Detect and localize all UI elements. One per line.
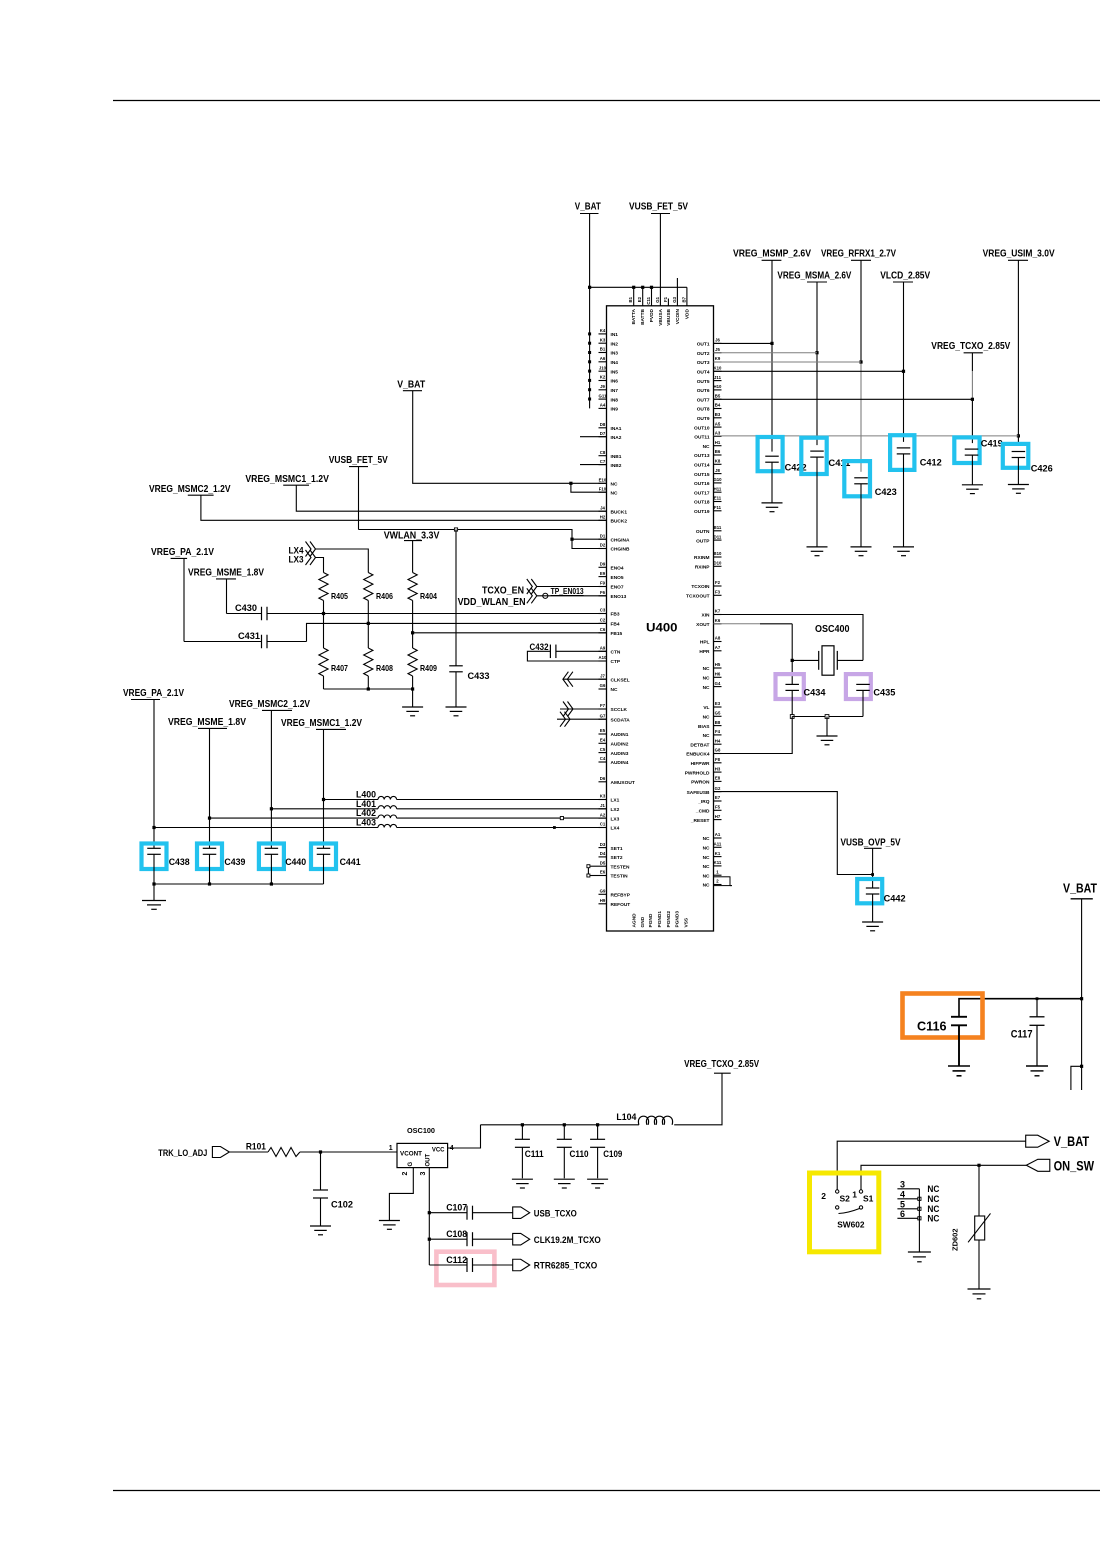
svg-text:NC: NC bbox=[703, 846, 710, 852]
capacitor C111 bbox=[515, 1125, 544, 1179]
top pin numbers bbox=[628, 296, 686, 304]
svg-text:A2: A2 bbox=[600, 812, 606, 817]
svg-text:VREG_TCXO_2.85V: VREG_TCXO_2.85V bbox=[931, 340, 1010, 352]
svg-text:E2: E2 bbox=[637, 296, 642, 302]
svg-text:CLKSEL: CLKSEL bbox=[611, 677, 630, 683]
svg-text:C438: C438 bbox=[169, 857, 190, 868]
svg-text:ENBUCK4: ENBUCK4 bbox=[686, 752, 710, 758]
capacitor C432 bbox=[530, 642, 556, 658]
power flag VREG_MSMC1_1.2V (lower) bbox=[281, 718, 362, 729]
wire CLKSEL bbox=[563, 678, 607, 680]
bottom pin names inside U400 bbox=[632, 911, 690, 928]
svg-text:OUT15: OUT15 bbox=[694, 472, 710, 478]
svg-text:VREG_MSMA_2.6V: VREG_MSMA_2.6V bbox=[777, 269, 851, 281]
resistor R408 bbox=[364, 648, 394, 676]
svg-text:CLK19.2M_TCXO: CLK19.2M_TCXO bbox=[534, 1235, 601, 1246]
svg-text:OUT9: OUT9 bbox=[697, 416, 710, 422]
svg-text:H10: H10 bbox=[714, 384, 722, 389]
svg-text:SET2: SET2 bbox=[611, 855, 623, 861]
wire VREG_MSMC1 vertical to C441 bbox=[322, 729, 325, 848]
svg-text:F3: F3 bbox=[715, 590, 721, 595]
capacitor C438 bbox=[142, 844, 190, 885]
svg-text:6: 6 bbox=[900, 1209, 905, 1219]
wire OSC100 VCC to node bbox=[448, 1125, 481, 1148]
svg-text:VSS: VSS bbox=[684, 917, 690, 927]
svg-text:AGND: AGND bbox=[632, 913, 638, 928]
wire LX2 row via L401 bbox=[271, 808, 606, 810]
resistor R405 bbox=[319, 573, 348, 602]
svg-text:D10: D10 bbox=[714, 561, 722, 566]
svg-text:BUCK2: BUCK2 bbox=[611, 519, 628, 525]
svg-text:A9: A9 bbox=[600, 646, 606, 651]
ground below OSC100 G bbox=[379, 1221, 400, 1230]
power flag VREG_RFRX1_2.7V bbox=[821, 248, 896, 261]
svg-text:D3: D3 bbox=[600, 842, 606, 847]
svg-text:4: 4 bbox=[900, 1189, 905, 1199]
svg-text:NC: NC bbox=[703, 873, 710, 879]
svg-text:K11: K11 bbox=[714, 860, 722, 865]
svg-text:C434: C434 bbox=[804, 688, 827, 699]
svg-text:C3: C3 bbox=[600, 608, 606, 613]
svg-text:_RESET: _RESET bbox=[690, 818, 710, 824]
svg-text:C108: C108 bbox=[446, 1229, 467, 1240]
svg-text:IN1: IN1 bbox=[611, 332, 619, 338]
svg-text:AUDIN1: AUDIN1 bbox=[611, 732, 629, 738]
svg-text:G3: G3 bbox=[672, 296, 677, 302]
power flag VREG_MSMC1_1.2V (upper) bbox=[245, 474, 329, 485]
wire OUT11 to VREG_USIM bbox=[714, 435, 1019, 437]
wire crystal ground rail bbox=[792, 715, 863, 719]
svg-text:SCDATA: SCDATA bbox=[611, 717, 631, 723]
svg-text:IN8: IN8 bbox=[611, 397, 619, 403]
svg-text:VCONT: VCONT bbox=[400, 1152, 422, 1158]
svg-text:PGND1: PGND1 bbox=[657, 911, 663, 928]
wire R405 bottom to FB3 node bbox=[322, 601, 325, 649]
svg-text:E9: E9 bbox=[600, 571, 606, 576]
svg-text:H11: H11 bbox=[714, 486, 722, 491]
svg-text:D7: D7 bbox=[600, 431, 606, 436]
svg-text:CHGINB: CHGINB bbox=[611, 547, 630, 553]
svg-text:2: 2 bbox=[821, 1191, 826, 1201]
svg-text:C426: C426 bbox=[1031, 464, 1053, 475]
svg-text:V_BAT: V_BAT bbox=[1054, 1133, 1090, 1149]
svg-text:K3: K3 bbox=[600, 337, 606, 342]
capacitor C440 bbox=[259, 844, 306, 885]
ground below NC pins bbox=[908, 1252, 931, 1262]
capacitor C419 bbox=[954, 437, 1003, 484]
wire VREG_MSMP rail bbox=[770, 260, 773, 451]
wire VWLAN row bbox=[359, 528, 607, 549]
wire INA2 stub bbox=[580, 436, 607, 438]
wire VREG_RFRX1 rail bbox=[859, 260, 862, 472]
wire top supply bus bbox=[588, 286, 687, 289]
connector ON_SW (bottom right) bbox=[1026, 1157, 1094, 1173]
capacitor C431 bbox=[238, 631, 267, 648]
inductor L104 bbox=[616, 1112, 672, 1125]
svg-text:1: 1 bbox=[852, 1190, 857, 1200]
wire VUSB_FET drop to VWLAN row bbox=[358, 467, 360, 530]
wire LX3 row via L402 bbox=[210, 817, 607, 820]
net label VWLAN_3.3V bbox=[384, 530, 440, 541]
svg-text:HPR: HPR bbox=[699, 649, 710, 655]
svg-text:C439: C439 bbox=[224, 857, 245, 868]
svg-text:K6: K6 bbox=[715, 618, 721, 623]
svg-text:B1: B1 bbox=[600, 347, 606, 352]
svg-text:H5: H5 bbox=[715, 662, 721, 667]
capacitor C109 bbox=[590, 1125, 622, 1179]
top pin names inside U400 bbox=[631, 308, 690, 325]
svg-text:VL: VL bbox=[703, 705, 709, 711]
svg-text:OUT19: OUT19 bbox=[694, 509, 710, 515]
svg-text:AMUXOUT: AMUXOUT bbox=[611, 780, 635, 786]
inductor L402 bbox=[356, 808, 397, 818]
svg-text:SW602: SW602 bbox=[837, 1220, 865, 1230]
svg-text:OUT7: OUT7 bbox=[697, 397, 710, 403]
svg-text:G1: G1 bbox=[655, 296, 660, 302]
power flag VUSB_FET_5V (top) bbox=[629, 201, 688, 214]
wire VWLAN label drop to R404 bbox=[412, 541, 414, 573]
svg-text:B7: B7 bbox=[681, 296, 686, 302]
svg-text:ENO5: ENO5 bbox=[611, 575, 624, 581]
svg-text:VUSB_OVP_5V: VUSB_OVP_5V bbox=[841, 837, 901, 848]
svg-text:OUT11: OUT11 bbox=[694, 435, 710, 441]
svg-text:VDD: VDD bbox=[684, 308, 690, 319]
svg-text:2: 2 bbox=[402, 1172, 409, 1176]
wire C108 to CLK19.2M_TCXO connector bbox=[473, 1238, 513, 1240]
svg-text:PGND3: PGND3 bbox=[675, 911, 681, 928]
wire VREG_MSME to C430 bbox=[226, 579, 228, 614]
svg-text:H9: H9 bbox=[600, 898, 606, 903]
wire TRK_LO_ADJ to R101 bbox=[230, 1151, 269, 1153]
svg-text:C423: C423 bbox=[875, 487, 897, 498]
svg-text:OUT16: OUT16 bbox=[694, 481, 710, 487]
svg-text:5: 5 bbox=[900, 1199, 905, 1209]
wire C434 bottom to ground rail bbox=[790, 690, 794, 718]
wire VUSB_OVP drop bbox=[871, 848, 874, 888]
svg-text:C111: C111 bbox=[525, 1149, 545, 1160]
svg-text:SET1: SET1 bbox=[611, 846, 623, 852]
wire OUT4 to VLCD bbox=[714, 370, 904, 372]
svg-text:VCOIN: VCOIN bbox=[675, 308, 681, 324]
wire CTP row U-loop bbox=[527, 651, 606, 661]
wire C433 drop from VWLAN row bbox=[455, 530, 457, 666]
capacitor C422 bbox=[758, 437, 807, 503]
capacitor C411 bbox=[801, 438, 851, 547]
svg-text:B8: B8 bbox=[715, 720, 721, 725]
wire resistor bottom rail bbox=[324, 676, 415, 691]
svg-text:C430: C430 bbox=[235, 603, 257, 614]
svg-text:J10: J10 bbox=[599, 365, 607, 370]
svg-text:F1: F1 bbox=[663, 296, 668, 302]
svg-text:IN7: IN7 bbox=[611, 388, 619, 394]
svg-text:G7: G7 bbox=[600, 713, 606, 718]
power flag V_BAT (top) bbox=[575, 201, 601, 214]
svg-text:IN9: IN9 bbox=[611, 407, 619, 413]
svg-text:D1: D1 bbox=[600, 533, 606, 538]
svg-text:K10: K10 bbox=[714, 366, 722, 371]
power flag VREG_MSMA_2.6V bbox=[777, 269, 851, 282]
resistor R404 bbox=[408, 573, 437, 602]
svg-text:GND: GND bbox=[640, 916, 646, 927]
svg-text:NC: NC bbox=[703, 836, 710, 842]
ground below C111 bbox=[512, 1179, 533, 1188]
wire VREG_MSMC1 to BUCK1 bbox=[296, 485, 606, 511]
svg-text:NC: NC bbox=[703, 444, 710, 450]
power flag VUSB_OVP_5V bbox=[841, 837, 901, 848]
svg-text:E8: E8 bbox=[715, 776, 721, 781]
svg-text:OUT: OUT bbox=[426, 1154, 432, 1167]
svg-text:OUT6: OUT6 bbox=[697, 388, 710, 394]
svg-text:F2: F2 bbox=[715, 580, 721, 585]
capacitor C116 bbox=[903, 994, 983, 1066]
ground below C426 bbox=[1008, 485, 1029, 494]
wire LX3 to R405 bbox=[316, 558, 324, 573]
wire VREG_TCXO to L104 bbox=[674, 1073, 722, 1125]
connector RTR6285_TCXO bbox=[513, 1259, 598, 1271]
svg-text:OSC100: OSC100 bbox=[407, 1128, 435, 1135]
svg-text:OUT1: OUT1 bbox=[697, 342, 710, 348]
svg-text:TP_EN013: TP_EN013 bbox=[551, 586, 584, 596]
svg-text:SAFEUSB: SAFEUSB bbox=[687, 790, 710, 796]
svg-text:E7: E7 bbox=[715, 795, 721, 800]
stub connector at V_BAT rail bottom bbox=[1071, 1065, 1083, 1090]
svg-text:A4: A4 bbox=[600, 403, 606, 408]
capacitor C435 bbox=[846, 674, 896, 699]
svg-text:SCCLK: SCCLK bbox=[611, 707, 628, 713]
wire VREG_TCXO rail bbox=[971, 353, 974, 443]
wire C435 bottom to ground rail bbox=[862, 690, 864, 716]
svg-text:OUT17: OUT17 bbox=[694, 490, 710, 496]
box around pin 2 stub bbox=[714, 877, 733, 886]
ground below C419 bbox=[962, 485, 983, 494]
svg-text:E6: E6 bbox=[600, 870, 606, 875]
svg-text:R405: R405 bbox=[331, 591, 348, 601]
svg-text:CHGINA: CHGINA bbox=[611, 537, 630, 543]
svg-text:RTR6285_TCXO: RTR6285_TCXO bbox=[534, 1261, 597, 1272]
wire LX4 to R406 bbox=[316, 549, 369, 573]
power flag VREG_USIM_3.0V bbox=[983, 248, 1055, 261]
svg-text:VREG_RFRX1_2.7V: VREG_RFRX1_2.7V bbox=[821, 248, 896, 260]
svg-text:F4: F4 bbox=[715, 729, 721, 734]
svg-text:F6: F6 bbox=[600, 590, 606, 595]
svg-text:A8: A8 bbox=[715, 636, 721, 641]
svg-text:FB15: FB15 bbox=[611, 631, 623, 637]
wire INB2 stub bbox=[580, 464, 607, 466]
svg-text:C102: C102 bbox=[331, 1200, 353, 1211]
svg-text:R101: R101 bbox=[246, 1142, 267, 1153]
svg-text:LX3: LX3 bbox=[289, 555, 304, 566]
wire C431 and FB4 row bbox=[184, 623, 607, 641]
svg-text:K3: K3 bbox=[600, 794, 606, 799]
wire LX4 row via L403 bbox=[154, 826, 607, 829]
svg-text:C116: C116 bbox=[917, 1019, 947, 1034]
svg-text:G8: G8 bbox=[715, 748, 721, 753]
connector CLK19.2M_TCXO bbox=[513, 1233, 601, 1245]
svg-text:VCC: VCC bbox=[432, 1148, 445, 1154]
svg-text:C4: C4 bbox=[600, 756, 606, 761]
svg-text:C11: C11 bbox=[646, 296, 651, 304]
svg-text:VREG_PA_2.1V: VREG_PA_2.1V bbox=[151, 547, 214, 558]
ground below resistor rail bbox=[402, 689, 423, 716]
svg-text:PWRON: PWRON bbox=[691, 780, 710, 786]
svg-text:BIAS: BIAS bbox=[698, 724, 710, 730]
wire R101 to OSC100 bbox=[300, 1150, 397, 1153]
wire TCXO_EN to ENO7 bbox=[537, 586, 607, 588]
svg-text:ENO4: ENO4 bbox=[611, 566, 624, 572]
svg-text:C412: C412 bbox=[920, 458, 942, 469]
svg-text:NC: NC bbox=[703, 685, 710, 691]
ground below C102 bbox=[310, 1226, 331, 1235]
wire SCCLK bbox=[560, 708, 607, 710]
svg-text:VREG_MSME_1.8V: VREG_MSME_1.8V bbox=[168, 717, 246, 728]
net label VDD_WLAN_EN with chevron bbox=[458, 588, 537, 608]
svg-text:J4: J4 bbox=[600, 505, 605, 510]
ground below crystal bbox=[817, 717, 838, 745]
svg-text:VREG_MSMC1_1.2V: VREG_MSMC1_1.2V bbox=[245, 474, 329, 485]
svg-text:B1: B1 bbox=[628, 296, 633, 302]
svg-text:NC: NC bbox=[703, 864, 710, 870]
svg-text:RXINM: RXINM bbox=[694, 555, 709, 561]
svg-text:G: G bbox=[408, 1162, 414, 1167]
svg-text:PWRHOLD: PWRHOLD bbox=[685, 770, 710, 776]
svg-text:NC: NC bbox=[927, 1184, 939, 1194]
oscillator OSC100 bbox=[389, 1128, 454, 1176]
svg-text:K9: K9 bbox=[715, 356, 721, 361]
power flag VREG_PA_2.1V (upper) bbox=[151, 547, 214, 558]
svg-text:NC: NC bbox=[703, 855, 710, 861]
power flag VREG_PA_2.1V (lower) bbox=[123, 688, 184, 700]
svg-text:TRK_LO_ADJ: TRK_LO_ADJ bbox=[158, 1148, 207, 1158]
wire SAFEUSB to C442 bbox=[714, 792, 873, 875]
svg-text:F10: F10 bbox=[599, 486, 607, 491]
svg-text:CTP: CTP bbox=[611, 659, 621, 665]
connector V_BAT (bottom right) bbox=[1026, 1133, 1090, 1149]
svg-text:NC: NC bbox=[703, 676, 710, 682]
capacitor C430 bbox=[235, 603, 267, 620]
svg-text:E3: E3 bbox=[715, 701, 721, 706]
ground below C433 bbox=[446, 672, 467, 716]
power flag VREG_MSMC2_1.2V (upper) bbox=[149, 484, 231, 495]
IC U400 body bbox=[607, 306, 714, 931]
svg-text:J1: J1 bbox=[600, 803, 605, 808]
svg-text:F7: F7 bbox=[600, 703, 606, 708]
svg-text:K2: K2 bbox=[600, 375, 606, 380]
svg-text:LX3: LX3 bbox=[611, 816, 620, 822]
svg-text:TESTIN: TESTIN bbox=[611, 874, 629, 880]
svg-text:3: 3 bbox=[900, 1179, 905, 1189]
svg-text:TCXOOUT: TCXOOUT bbox=[686, 594, 710, 600]
ground below C442 bbox=[862, 922, 883, 931]
svg-text:ENO7: ENO7 bbox=[611, 585, 624, 591]
capacitor C108 bbox=[429, 1229, 472, 1246]
wire XOUT to crystal left bbox=[714, 624, 793, 661]
svg-text:C8: C8 bbox=[600, 450, 606, 455]
svg-text:B10: B10 bbox=[714, 551, 722, 556]
svg-text:E11: E11 bbox=[714, 496, 722, 501]
svg-text:VUSB_FET_5V: VUSB_FET_5V bbox=[629, 201, 688, 213]
svg-text:XIN: XIN bbox=[702, 613, 711, 619]
svg-text:RXINP: RXINP bbox=[695, 565, 710, 571]
svg-text:E10: E10 bbox=[599, 478, 607, 483]
svg-text:OUTP: OUTP bbox=[696, 538, 710, 544]
svg-text:VREG_PA_2.1V: VREG_PA_2.1V bbox=[123, 688, 184, 699]
svg-text:PVDD: PVDD bbox=[649, 308, 655, 322]
svg-text:IN4: IN4 bbox=[611, 360, 619, 366]
svg-text:J5: J5 bbox=[715, 347, 720, 352]
svg-text:C117: C117 bbox=[1011, 1029, 1033, 1041]
svg-text:VREG_TCXO_2.85V: VREG_TCXO_2.85V bbox=[684, 1059, 759, 1070]
power flag V_BAT (mid) bbox=[397, 379, 425, 391]
crystal OSC400 bbox=[792, 623, 863, 675]
svg-text:G4: G4 bbox=[715, 681, 721, 686]
svg-text:VDD_WLAN_EN: VDD_WLAN_EN bbox=[458, 597, 526, 608]
wire VUSB_FET_5V drop bbox=[659, 214, 661, 306]
svg-text:D6: D6 bbox=[600, 776, 606, 781]
svg-text:NC: NC bbox=[703, 883, 710, 889]
svg-text:U400: U400 bbox=[646, 621, 678, 635]
svg-text:AUDIN3: AUDIN3 bbox=[611, 751, 629, 757]
wire SCDATA bbox=[557, 718, 607, 720]
wire VREG_MSMA rail bbox=[815, 282, 818, 445]
svg-text:USB_TCXO: USB_TCXO bbox=[534, 1208, 577, 1219]
svg-text:VBUSB: VBUSB bbox=[666, 308, 672, 325]
svg-text:D5: D5 bbox=[600, 860, 606, 865]
resistor R409 bbox=[408, 648, 437, 676]
wire C116 C117 node row bbox=[959, 997, 1082, 1017]
ground below C422 bbox=[762, 503, 783, 512]
svg-text:R406: R406 bbox=[376, 591, 393, 601]
svg-text:NC: NC bbox=[611, 482, 618, 488]
wire OSC100 OUT down bbox=[428, 1168, 431, 1265]
pin stubs top of U400 bbox=[632, 278, 687, 306]
svg-text:F11: F11 bbox=[714, 505, 722, 510]
wire switch S2 to V_BAT connector bbox=[837, 1141, 1025, 1190]
wire R406 bottom to FB4 node bbox=[367, 601, 370, 649]
capacitor C412 bbox=[890, 435, 942, 546]
svg-text:G10: G10 bbox=[713, 477, 722, 482]
ground below ZD602 bbox=[968, 1289, 991, 1299]
capacitor C442 bbox=[857, 879, 905, 922]
svg-text:C6: C6 bbox=[600, 627, 606, 632]
capacitor C423 bbox=[844, 461, 896, 546]
svg-text:OUT4: OUT4 bbox=[697, 370, 710, 376]
svg-text:H4: H4 bbox=[715, 738, 721, 743]
svg-text:J6: J6 bbox=[715, 338, 720, 343]
power flag V_BAT (right) bbox=[1063, 880, 1097, 899]
connector TRK_LO_ADJ bbox=[158, 1147, 229, 1159]
svg-text:B4: B4 bbox=[715, 403, 721, 408]
svg-text:OSC400: OSC400 bbox=[815, 623, 850, 635]
svg-text:BATTA: BATTA bbox=[631, 308, 637, 324]
wire FB15 row bbox=[413, 632, 607, 634]
svg-text:IN5: IN5 bbox=[611, 369, 619, 375]
svg-text:A7: A7 bbox=[715, 645, 721, 650]
ground below C109 bbox=[587, 1179, 608, 1188]
svg-text:H7: H7 bbox=[715, 814, 721, 819]
svg-text:VLCD_2.85V: VLCD_2.85V bbox=[880, 269, 930, 281]
svg-text:C419: C419 bbox=[981, 438, 1003, 449]
svg-text:IN3: IN3 bbox=[611, 351, 619, 357]
svg-text:OUT2: OUT2 bbox=[697, 351, 710, 357]
svg-text:INA1: INA1 bbox=[611, 426, 622, 432]
bracket joining TESTEN TESTIN stubs bbox=[587, 865, 599, 877]
svg-text:B3: B3 bbox=[715, 412, 721, 417]
svg-text:J9: J9 bbox=[600, 384, 605, 389]
wire VREG_MSMC2 vertical to C440 bbox=[270, 710, 273, 848]
wire FB3 row bbox=[227, 613, 607, 615]
net label TCXO_EN with chevron bbox=[482, 579, 537, 597]
svg-text:J11: J11 bbox=[714, 375, 722, 380]
